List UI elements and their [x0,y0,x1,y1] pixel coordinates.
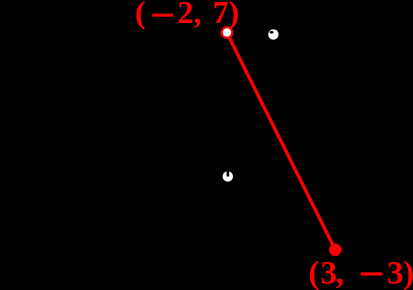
endpoint filled dot at (3,-3) [329,244,341,256]
label (3, -3) [309,255,413,290]
svg-text:3: 3 [321,255,338,290]
white dot A [268,29,278,39]
svg-text:): ) [403,255,413,290]
svg-text:): ) [229,0,240,30]
notch in dot B [227,171,230,177]
svg-text:3: 3 [387,255,404,290]
notch in dot A [270,31,274,34]
endpoint open circle at (-2,7) [222,27,233,38]
svg-text:7: 7 [213,0,229,30]
wire segment from (-2,7) to (3,-3) [227,33,335,250]
label (-2, 7) [135,0,239,30]
svg-text:(: ( [135,0,146,30]
svg-text:,: , [194,0,202,30]
svg-text:,: , [336,255,344,290]
svg-text:2: 2 [178,0,194,30]
white dot B [223,171,233,181]
svg-text:(: ( [309,255,320,290]
